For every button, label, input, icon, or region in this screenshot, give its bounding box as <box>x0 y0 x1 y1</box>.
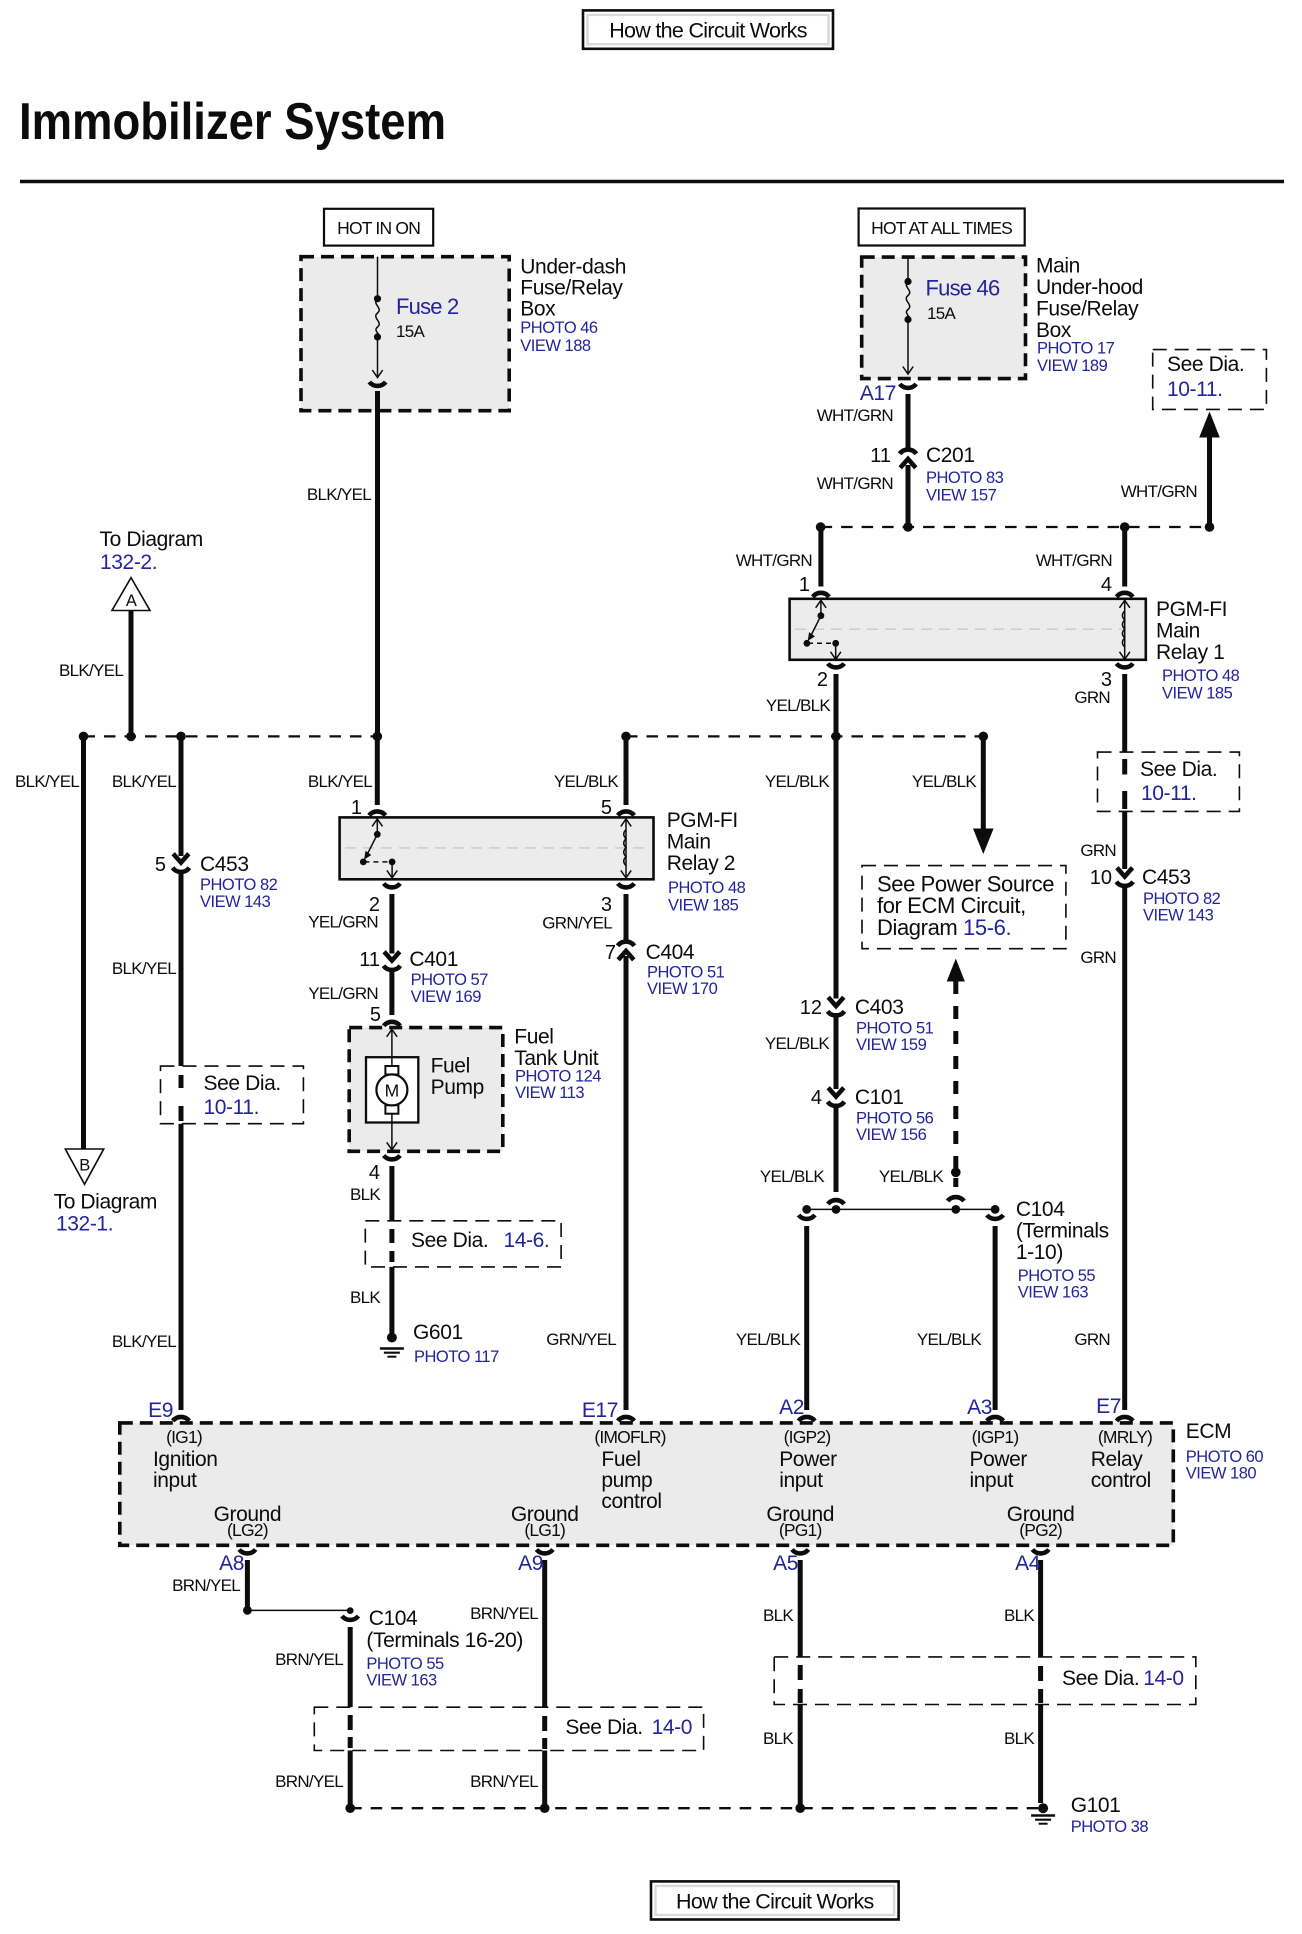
svg-text:C104: C104 <box>1016 1198 1065 1221</box>
svg-text:VIEW 180: VIEW 180 <box>1186 1465 1257 1483</box>
svg-text:PHOTO 83: PHOTO 83 <box>926 469 1004 487</box>
svg-text:Under-dash: Under-dash <box>520 255 626 278</box>
svg-text:BLK: BLK <box>763 1606 794 1625</box>
svg-text:control: control <box>601 1490 661 1513</box>
svg-text:A2: A2 <box>779 1396 804 1419</box>
svg-text:14-6.: 14-6. <box>504 1229 550 1252</box>
svg-text:15A: 15A <box>396 322 426 341</box>
svg-text:5: 5 <box>155 854 166 876</box>
svg-text:BLK/YEL: BLK/YEL <box>112 772 176 791</box>
svg-text:PHOTO 124: PHOTO 124 <box>515 1068 601 1086</box>
svg-text:YEL/GRN: YEL/GRN <box>308 913 378 932</box>
svg-text:15A: 15A <box>927 304 957 323</box>
svg-text:Immobilizer System: Immobilizer System <box>19 93 446 151</box>
svg-text:(LG1): (LG1) <box>524 1520 565 1540</box>
svg-text:GRN/YEL: GRN/YEL <box>542 914 612 933</box>
svg-text:GRN/YEL: GRN/YEL <box>546 1330 616 1349</box>
svg-text:WHT/GRN: WHT/GRN <box>736 551 812 570</box>
svg-text:PHOTO 48: PHOTO 48 <box>1162 667 1240 685</box>
svg-text:BLK: BLK <box>763 1729 794 1748</box>
svg-text:A9: A9 <box>518 1552 543 1575</box>
svg-text:WHT/GRN: WHT/GRN <box>817 474 893 493</box>
svg-text:GRN: GRN <box>1074 688 1110 707</box>
svg-text:Relay: Relay <box>1091 1448 1144 1471</box>
svg-text:B: B <box>79 1157 90 1175</box>
svg-text:10: 10 <box>1090 867 1112 889</box>
svg-text:PHOTO 17: PHOTO 17 <box>1037 340 1115 358</box>
svg-text:HOT IN ON: HOT IN ON <box>337 218 420 238</box>
svg-text:BLK/YEL: BLK/YEL <box>112 1332 176 1351</box>
svg-text:7: 7 <box>605 942 616 964</box>
svg-text:BRN/YEL: BRN/YEL <box>470 1772 538 1791</box>
svg-text:10-11.: 10-11. <box>1167 378 1223 401</box>
svg-text:(PG1): (PG1) <box>779 1520 822 1540</box>
svg-text:BRN/YEL: BRN/YEL <box>172 1576 240 1595</box>
svg-text:VIEW 159: VIEW 159 <box>856 1036 927 1054</box>
svg-text:Fuel: Fuel <box>601 1448 640 1471</box>
svg-text:VIEW 185: VIEW 185 <box>1162 685 1233 703</box>
svg-text:(Terminals 16-20): (Terminals 16-20) <box>366 1629 523 1652</box>
svg-text:pump: pump <box>601 1469 652 1492</box>
svg-text:132-1.: 132-1. <box>56 1213 113 1236</box>
svg-text:GRN: GRN <box>1080 841 1116 860</box>
svg-text:A3: A3 <box>967 1396 992 1419</box>
svg-text:PHOTO 60: PHOTO 60 <box>1186 1448 1264 1466</box>
svg-text:YEL/BLK: YEL/BLK <box>765 772 830 791</box>
svg-text:VIEW 157: VIEW 157 <box>926 487 997 505</box>
svg-text:VIEW 188: VIEW 188 <box>520 337 591 355</box>
svg-text:PHOTO 51: PHOTO 51 <box>647 964 725 982</box>
svg-text:YEL/BLK: YEL/BLK <box>766 696 831 715</box>
svg-text:VIEW 156: VIEW 156 <box>856 1126 927 1144</box>
svg-text:input: input <box>779 1469 823 1492</box>
svg-text:E7: E7 <box>1096 1395 1121 1418</box>
svg-text:BLK/YEL: BLK/YEL <box>59 661 123 680</box>
svg-text:E9: E9 <box>148 1399 173 1422</box>
svg-text:4: 4 <box>369 1162 380 1184</box>
svg-text:GRN: GRN <box>1074 1330 1110 1349</box>
svg-text:11: 11 <box>359 949 380 971</box>
svg-text:How the Circuit Works: How the Circuit Works <box>609 19 807 43</box>
svg-text:BLK: BLK <box>1004 1606 1035 1625</box>
svg-text:5: 5 <box>370 1004 381 1026</box>
svg-text:(PG2): (PG2) <box>1019 1520 1062 1540</box>
svg-text:PHOTO 51: PHOTO 51 <box>856 1020 934 1038</box>
svg-text:See Dia.: See Dia. <box>411 1229 488 1252</box>
svg-text:PHOTO 82: PHOTO 82 <box>200 876 278 894</box>
svg-text:PGM-FI: PGM-FI <box>667 809 738 832</box>
svg-text:ECM: ECM <box>1186 1420 1231 1443</box>
svg-text:(MRLY): (MRLY) <box>1098 1427 1152 1447</box>
svg-text:To Diagram: To Diagram <box>100 528 203 551</box>
svg-text:C404: C404 <box>646 941 695 964</box>
svg-text:PHOTO 56: PHOTO 56 <box>856 1110 934 1128</box>
svg-text:BRN/YEL: BRN/YEL <box>275 1772 343 1791</box>
svg-text:A17: A17 <box>860 382 896 405</box>
svg-text:How the Circuit Works: How the Circuit Works <box>676 1890 874 1914</box>
svg-text:GRN: GRN <box>1080 948 1116 967</box>
svg-text:Relay 2: Relay 2 <box>667 852 735 875</box>
svg-text:PGM-FI: PGM-FI <box>1156 598 1227 621</box>
svg-text:YEL/BLK: YEL/BLK <box>917 1330 982 1349</box>
svg-text:Fuse/Relay: Fuse/Relay <box>520 277 623 300</box>
svg-text:PHOTO 55: PHOTO 55 <box>366 1655 444 1673</box>
svg-text:YEL/BLK: YEL/BLK <box>879 1167 944 1186</box>
svg-text:C101: C101 <box>855 1086 904 1109</box>
svg-text:BRN/YEL: BRN/YEL <box>470 1604 538 1623</box>
svg-text:11: 11 <box>870 445 891 467</box>
svg-text:input: input <box>970 1469 1014 1492</box>
svg-text:1-10): 1-10) <box>1016 1241 1063 1264</box>
svg-text:See Dia.: See Dia. <box>1140 758 1217 781</box>
svg-text:E17: E17 <box>582 1399 618 1422</box>
svg-text:Fuel: Fuel <box>514 1026 553 1049</box>
svg-text:BLK: BLK <box>1004 1729 1035 1748</box>
svg-text:(IGP1): (IGP1) <box>972 1427 1019 1447</box>
svg-text:(IMOFLR): (IMOFLR) <box>594 1427 665 1447</box>
svg-text:(Terminals: (Terminals <box>1016 1220 1109 1243</box>
svg-text:Diagram 15-6.: Diagram 15-6. <box>877 915 1011 940</box>
svg-text:To Diagram: To Diagram <box>54 1191 157 1214</box>
svg-text:input: input <box>153 1469 197 1492</box>
svg-text:WHT/GRN: WHT/GRN <box>1036 551 1112 570</box>
svg-text:C401: C401 <box>409 948 458 971</box>
svg-text:BLK/YEL: BLK/YEL <box>308 772 372 791</box>
svg-text:Relay 1: Relay 1 <box>1156 641 1224 664</box>
svg-text:VIEW 113: VIEW 113 <box>515 1084 584 1102</box>
svg-text:4: 4 <box>1101 574 1112 596</box>
svg-text:C104: C104 <box>369 1607 418 1630</box>
svg-text:A4: A4 <box>1015 1552 1041 1575</box>
svg-text:C453: C453 <box>1142 866 1191 889</box>
svg-text:1: 1 <box>351 797 362 819</box>
svg-text:Fuse 2: Fuse 2 <box>396 294 459 319</box>
svg-text:Fuse 46: Fuse 46 <box>926 276 1000 301</box>
svg-text:VIEW 185: VIEW 185 <box>668 897 739 915</box>
svg-text:See Dia.: See Dia. <box>204 1072 281 1095</box>
svg-text:BLK: BLK <box>350 1185 381 1204</box>
svg-text:A: A <box>126 592 137 610</box>
svg-text:WHT/GRN: WHT/GRN <box>817 406 893 425</box>
svg-text:YEL/BLK: YEL/BLK <box>736 1330 801 1349</box>
svg-text:Fuel: Fuel <box>431 1055 470 1078</box>
svg-text:See Dia.14-0: See Dia.14-0 <box>1062 1667 1184 1690</box>
svg-text:BLK/YEL: BLK/YEL <box>307 485 371 504</box>
svg-text:Fuse/Relay: Fuse/Relay <box>1036 298 1139 321</box>
svg-text:VIEW 143: VIEW 143 <box>200 893 271 911</box>
svg-text:Under-hood: Under-hood <box>1036 276 1143 299</box>
svg-text:Box: Box <box>520 298 556 321</box>
svg-text:2: 2 <box>817 669 828 691</box>
svg-text:C403: C403 <box>855 996 904 1019</box>
svg-text:BRN/YEL: BRN/YEL <box>275 1650 343 1669</box>
svg-text:1: 1 <box>799 574 810 596</box>
svg-text:132-2.: 132-2. <box>100 551 157 574</box>
svg-text:C453: C453 <box>200 853 249 876</box>
svg-text:VIEW 163: VIEW 163 <box>366 1672 437 1690</box>
svg-text:G101: G101 <box>1071 1794 1121 1817</box>
svg-text:HOT AT ALL TIMES: HOT AT ALL TIMES <box>871 218 1012 238</box>
svg-text:Pump: Pump <box>431 1076 484 1099</box>
svg-text:10-11.: 10-11. <box>204 1096 260 1119</box>
svg-text:4: 4 <box>811 1087 822 1109</box>
svg-text:C201: C201 <box>926 444 975 467</box>
svg-text:PHOTO 46: PHOTO 46 <box>520 319 598 337</box>
svg-text:BLK: BLK <box>350 1288 381 1307</box>
svg-text:A8: A8 <box>219 1552 244 1575</box>
svg-text:WHT/GRN: WHT/GRN <box>1121 482 1197 501</box>
svg-text:Power: Power <box>779 1448 837 1471</box>
svg-text:M: M <box>385 1080 400 1100</box>
svg-text:YEL/BLK: YEL/BLK <box>760 1167 825 1186</box>
svg-text:VIEW 189: VIEW 189 <box>1037 357 1108 375</box>
svg-text:BLK/YEL: BLK/YEL <box>15 772 79 791</box>
svg-text:12: 12 <box>800 997 822 1019</box>
svg-text:See Dia.: See Dia. <box>1167 353 1244 376</box>
svg-text:Main: Main <box>667 831 711 854</box>
svg-text:(IGP2): (IGP2) <box>784 1427 831 1447</box>
svg-text:YEL/BLK: YEL/BLK <box>912 772 977 791</box>
svg-text:See Dia.14-0: See Dia.14-0 <box>565 1716 692 1739</box>
svg-text:VIEW 170: VIEW 170 <box>647 980 718 998</box>
svg-text:Main: Main <box>1156 620 1200 643</box>
svg-text:G601: G601 <box>413 1321 463 1344</box>
svg-text:5: 5 <box>601 797 612 819</box>
svg-text:PHOTO 117: PHOTO 117 <box>414 1348 499 1366</box>
svg-text:Power: Power <box>970 1448 1028 1471</box>
svg-text:Main: Main <box>1036 255 1080 278</box>
svg-text:YEL/BLK: YEL/BLK <box>765 1034 830 1053</box>
svg-text:PHOTO 38: PHOTO 38 <box>1071 1818 1149 1836</box>
svg-text:YEL/GRN: YEL/GRN <box>308 984 378 1003</box>
svg-text:VIEW 169: VIEW 169 <box>411 988 482 1006</box>
svg-text:BLK/YEL: BLK/YEL <box>112 959 176 978</box>
svg-text:PHOTO 82: PHOTO 82 <box>1143 890 1221 908</box>
svg-text:PHOTO 48: PHOTO 48 <box>668 879 746 897</box>
svg-text:Ignition: Ignition <box>153 1448 218 1471</box>
svg-text:(IG1): (IG1) <box>166 1427 202 1447</box>
svg-text:PHOTO 57: PHOTO 57 <box>411 971 489 989</box>
svg-text:A5: A5 <box>773 1552 798 1575</box>
svg-text:YEL/BLK: YEL/BLK <box>554 772 619 791</box>
svg-text:VIEW 143: VIEW 143 <box>1143 907 1214 925</box>
svg-text:10-11.: 10-11. <box>1141 782 1197 805</box>
svg-text:(LG2): (LG2) <box>227 1520 268 1540</box>
svg-text:VIEW 163: VIEW 163 <box>1018 1284 1089 1302</box>
svg-text:control: control <box>1091 1469 1151 1492</box>
svg-text:PHOTO 55: PHOTO 55 <box>1018 1267 1096 1285</box>
